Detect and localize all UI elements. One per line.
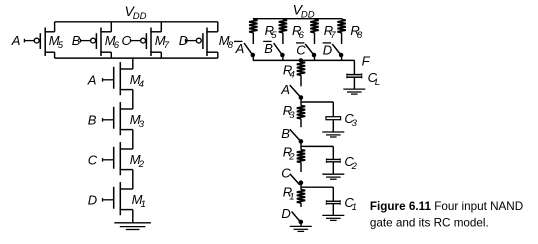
resistor R2 xyxy=(297,150,305,172)
node B input label (NMOS) xyxy=(88,112,97,127)
node C input label (PMOS) xyxy=(122,33,132,48)
wire VDD rail (right) xyxy=(253,18,342,20)
capacitor C2 xyxy=(326,158,341,174)
svg-text:6: 6 xyxy=(299,30,305,41)
label M1 xyxy=(132,192,146,210)
switch label B-bar xyxy=(263,41,273,56)
label C1 xyxy=(344,195,356,213)
switch B label xyxy=(281,126,290,141)
wire node-F rail xyxy=(253,59,355,61)
ground (under C3) xyxy=(322,132,344,137)
switch label D-bar xyxy=(323,42,332,57)
resistor R3 xyxy=(297,106,305,128)
wire gate lead C with tick xyxy=(103,158,114,162)
transistor M7 (PMOS) xyxy=(141,22,162,58)
ground (under C_L) xyxy=(343,89,365,94)
wire tap to C2 xyxy=(301,146,333,159)
wire F to C_L xyxy=(353,60,355,74)
wire series connection xyxy=(132,170,134,189)
switch label A-bar xyxy=(234,41,244,56)
node A input label (PMOS) xyxy=(11,33,21,48)
wire gate lead D with tick xyxy=(186,39,197,43)
node junction below switch A xyxy=(299,95,304,105)
label R5 xyxy=(265,23,278,41)
transistor M3 (NMOS) xyxy=(114,102,133,135)
power label V_DD (right) xyxy=(293,1,315,20)
wire series connection xyxy=(132,130,134,149)
svg-text:C: C xyxy=(281,166,291,181)
svg-text:Figure 6.11 Four input NAND: Figure 6.11 Four input NAND xyxy=(370,200,523,213)
label C_L xyxy=(368,70,380,88)
label R1 xyxy=(283,184,295,202)
transistor M8 (PMOS) xyxy=(196,22,217,58)
svg-text:4: 4 xyxy=(290,69,295,80)
capacitor C3 xyxy=(326,117,341,132)
wire gate lead C with tick xyxy=(131,39,141,43)
svg-text:3: 3 xyxy=(352,118,358,129)
label C2 xyxy=(344,154,357,172)
svg-text:B: B xyxy=(264,41,273,56)
svg-text:L: L xyxy=(375,77,380,88)
svg-text:D: D xyxy=(88,192,97,207)
svg-text:2: 2 xyxy=(138,159,145,170)
svg-text:4: 4 xyxy=(139,79,144,90)
label M8 xyxy=(219,33,234,51)
svg-text:1: 1 xyxy=(352,202,357,213)
label M5 xyxy=(49,33,64,51)
node junction below switch C xyxy=(299,180,304,189)
label R6 xyxy=(292,23,305,41)
wire gate lead D with tick xyxy=(103,198,114,202)
svg-text:B: B xyxy=(88,112,97,127)
resistor R6 xyxy=(279,19,287,44)
wire tap to C1 xyxy=(301,187,333,201)
svg-text:D: D xyxy=(323,42,332,57)
svg-text:7: 7 xyxy=(164,40,170,51)
label R3 xyxy=(283,103,296,121)
label R4 xyxy=(283,62,295,80)
svg-text:5: 5 xyxy=(271,30,277,41)
node A input label (NMOS) xyxy=(87,72,97,87)
switch B-bar (open) xyxy=(274,43,285,60)
switch C label xyxy=(281,166,291,181)
label M2 xyxy=(130,152,145,170)
wire output node to NMOS chain xyxy=(132,58,134,69)
label R8 xyxy=(350,23,363,41)
wire PMOS output rail xyxy=(55,57,218,59)
resistor R5 xyxy=(249,19,257,44)
node D input label (PMOS) xyxy=(179,33,188,48)
wire series connection xyxy=(132,90,134,109)
node D input label (NMOS) xyxy=(88,192,97,207)
svg-text:F: F xyxy=(362,53,371,68)
resistor R7 xyxy=(310,19,318,44)
svg-text:8: 8 xyxy=(357,30,363,41)
transistor M4 (NMOS) xyxy=(114,62,133,95)
ground (under C1) xyxy=(322,215,344,220)
wire gate lead A with tick xyxy=(24,39,34,43)
transistor M5 (PMOS) xyxy=(34,22,54,58)
svg-text:2: 2 xyxy=(351,161,358,172)
svg-text:8: 8 xyxy=(228,40,234,51)
svg-text:2: 2 xyxy=(288,151,295,162)
capacitor C1 xyxy=(326,200,341,215)
svg-text:C: C xyxy=(296,42,306,57)
node F label xyxy=(362,53,371,68)
transistor M1 (NMOS) xyxy=(114,182,133,215)
svg-text:1: 1 xyxy=(289,191,294,202)
switch label C-bar xyxy=(296,42,306,57)
svg-text:1: 1 xyxy=(141,199,146,210)
switch C (closed to node) xyxy=(290,174,300,185)
node junction below switch B xyxy=(299,139,304,150)
wire to ground xyxy=(132,210,134,223)
label M7 xyxy=(155,33,170,51)
svg-text:DD: DD xyxy=(133,11,147,22)
resistor R8 xyxy=(337,19,345,44)
label R2 xyxy=(283,144,296,162)
svg-text:B: B xyxy=(281,126,290,141)
switch D label xyxy=(281,206,290,221)
node junction rail/R4 xyxy=(299,58,303,62)
wire gate lead B with tick xyxy=(81,39,91,43)
svg-text:7: 7 xyxy=(330,30,336,41)
switch B (closed to node) xyxy=(290,129,300,140)
switch D-bar (open) xyxy=(332,44,343,60)
svg-text:A: A xyxy=(11,33,21,48)
svg-text:gate and its RC model.: gate and its RC model. xyxy=(370,216,489,229)
switch D (to ground) xyxy=(292,212,303,227)
resistor R1 xyxy=(297,190,305,207)
resistor R4 xyxy=(297,62,305,87)
svg-text:5: 5 xyxy=(58,40,64,51)
svg-text:3: 3 xyxy=(289,110,295,121)
label M6 xyxy=(105,33,120,51)
wire gate lead A with tick xyxy=(103,78,114,82)
switch A label xyxy=(280,82,290,97)
label C3 xyxy=(344,111,357,129)
wire VDD rail (left) xyxy=(55,21,218,23)
svg-text:A: A xyxy=(87,72,97,87)
svg-text:A: A xyxy=(235,41,245,56)
label R7 xyxy=(324,23,337,41)
switch C-bar (open) xyxy=(305,44,316,60)
svg-text:D: D xyxy=(281,206,290,221)
caption Figure 6.11 xyxy=(370,200,523,229)
node C input label (NMOS) xyxy=(88,152,98,167)
svg-text:6: 6 xyxy=(114,40,120,51)
svg-text:3: 3 xyxy=(139,119,145,130)
transistor M2 (NMOS) xyxy=(114,142,133,175)
node B input label (PMOS) xyxy=(72,33,81,48)
wire tap to C3 xyxy=(301,102,333,117)
label M4 xyxy=(130,72,144,90)
transistor M6 (PMOS) xyxy=(91,22,112,58)
switch A-bar (open) xyxy=(244,43,255,60)
svg-text:B: B xyxy=(72,33,81,48)
ground (under C2) xyxy=(322,174,344,179)
switch A (closed to node) xyxy=(290,85,300,96)
ground (left circuit) xyxy=(114,223,151,230)
svg-text:C: C xyxy=(88,152,98,167)
ground (under switch D) xyxy=(290,226,312,231)
wire gate lead B with tick xyxy=(103,118,114,122)
label M3 xyxy=(130,112,145,130)
svg-text:A: A xyxy=(280,82,290,97)
power label V_DD (left) xyxy=(125,3,147,22)
capacitor C_L xyxy=(347,74,363,90)
